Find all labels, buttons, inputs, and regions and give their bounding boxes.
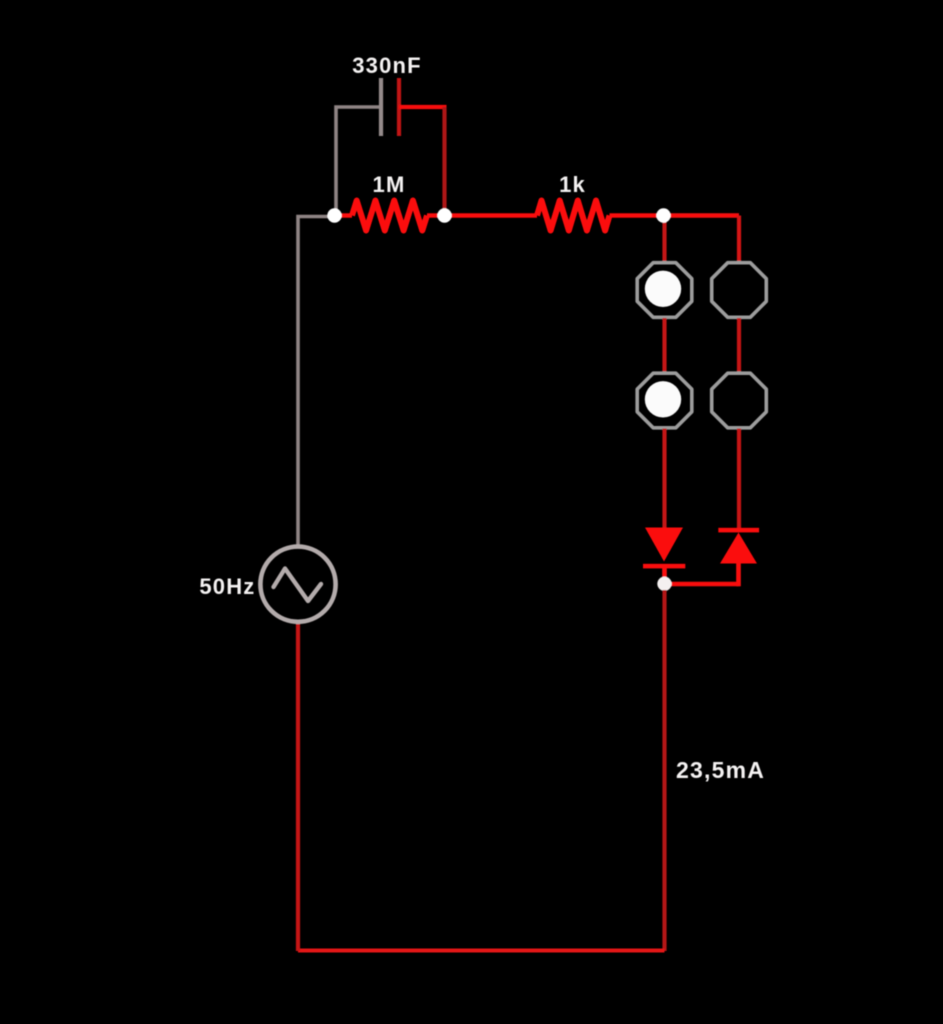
wire	[336, 107, 381, 216]
wire	[662, 590, 666, 951]
capacitor C1 plate left	[379, 78, 383, 136]
svg-text:1M: 1M	[373, 172, 406, 197]
voltage source V1 (AC)	[260, 547, 335, 622]
svg-text:330nF: 330nF	[352, 53, 422, 78]
wire	[662, 429, 666, 529]
lamp L4 (unlit)	[712, 373, 767, 428]
lamp L1 (lit)	[637, 263, 692, 318]
wire	[399, 105, 447, 109]
wire	[662, 318, 666, 373]
svg-text:23,5mA: 23,5mA	[676, 757, 765, 783]
resistor R1 1M	[335, 201, 445, 231]
wire	[737, 429, 741, 530]
diode D1 (cathode down)	[643, 528, 685, 579]
wire	[737, 318, 741, 373]
capacitor C1 plate right	[397, 78, 401, 136]
svg-text:1k: 1k	[559, 172, 586, 197]
wire	[664, 213, 740, 218]
resistor R2 1k	[445, 201, 664, 231]
wire	[662, 216, 666, 263]
node D	[657, 577, 671, 591]
node A	[327, 208, 341, 222]
wire	[737, 216, 741, 263]
wire	[298, 217, 336, 546]
node B	[437, 208, 451, 222]
wire	[442, 107, 446, 216]
wire	[298, 949, 665, 953]
lamp L2 (unlit)	[712, 263, 767, 318]
diode D2 (cathode up)	[718, 528, 759, 587]
wire	[296, 622, 300, 951]
svg-text:50Hz: 50Hz	[199, 574, 255, 599]
wire	[665, 582, 739, 587]
lamp L3 (lit)	[637, 373, 692, 428]
node C	[656, 208, 670, 222]
